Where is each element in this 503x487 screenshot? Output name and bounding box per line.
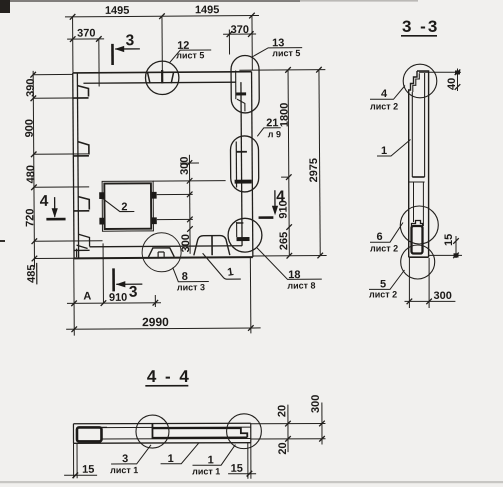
svg-text:лист 8: лист 8 — [287, 280, 315, 290]
label 3 лист 1 — [111, 445, 151, 464]
label 1 (dome) — [203, 253, 241, 279]
svg-text:лист 1: лист 1 — [110, 465, 138, 475]
left end C-channel — [77, 427, 107, 441]
label 8 лист 3 — [173, 267, 209, 282]
svg-text:4 - 4: 4 - 4 — [147, 367, 191, 386]
svg-text:лист 2: лист 2 — [369, 290, 397, 300]
label 12 лист 5 leader — [170, 50, 212, 62]
svg-text:1800: 1800 — [279, 103, 291, 128]
dim 370 left — [67, 36, 104, 87]
svg-text:3 -3: 3 -3 — [402, 17, 439, 36]
core slab — [152, 423, 247, 437]
detail stadium 21 (middle right) — [230, 136, 258, 192]
svg-text:390: 390 — [25, 79, 37, 97]
detail circle 8 — [142, 233, 181, 272]
section 3-3 bottom key — [412, 221, 423, 254]
svg-text:720: 720 — [24, 209, 36, 227]
left edge keyway notch 3 — [74, 197, 90, 211]
bottom recess left (detail 8) — [148, 248, 174, 257]
dim 370 right — [223, 29, 256, 54]
svg-text:4: 4 — [40, 193, 49, 210]
svg-text:лист 2: лист 2 — [370, 244, 398, 254]
outer left face with top step — [409, 71, 417, 257]
svg-text:15: 15 — [82, 464, 94, 476]
label 1 лист 1 (right) — [192, 445, 235, 466]
dim 15 left — [64, 443, 97, 478]
svg-text:1: 1 — [168, 453, 174, 465]
label 2 leader — [103, 199, 134, 212]
svg-text:20: 20 — [276, 405, 288, 417]
svg-text:910: 910 — [109, 292, 127, 304]
plate 2 anchor lugs — [99, 192, 157, 225]
panel bottom edge outer — [74, 257, 253, 258]
svg-text:3: 3 — [129, 284, 138, 301]
stadium 21 joint profile — [234, 141, 251, 187]
outer right face — [417, 71, 429, 257]
panel right edge outer — [252, 72, 253, 257]
panel left edge outer — [73, 73, 74, 258]
label 4 лист 2 — [370, 86, 405, 100]
svg-text:21: 21 — [266, 117, 278, 129]
detail circle middle (6) — [400, 206, 438, 244]
485 underline — [36, 263, 38, 284]
label 5 лист 2 — [369, 270, 405, 289]
inner cavity lines — [411, 92, 413, 177]
dim 300 (bottom) — [405, 258, 456, 308]
svg-text:370: 370 — [231, 24, 249, 36]
svg-text:лист 2: лист 2 — [370, 102, 398, 112]
svg-text:лист 5: лист 5 — [272, 48, 300, 58]
svg-text:2975: 2975 — [308, 158, 320, 183]
svg-text:1495: 1495 — [105, 5, 130, 17]
panel top edge inner — [83, 82, 235, 83]
svg-text:300: 300 — [310, 395, 322, 413]
svg-text:900: 900 — [24, 119, 36, 137]
dim 40 (top right) — [419, 69, 461, 92]
svg-text:300: 300 — [434, 290, 452, 302]
svg-text:6: 6 — [377, 231, 383, 243]
detail circle bottom (5) — [401, 245, 435, 279]
label 1 (middle) — [161, 443, 199, 464]
panel left edge inner — [77, 73, 78, 258]
left edge keyway notch 2 — [73, 142, 89, 156]
left edge keyway notch 1 — [73, 86, 89, 99]
detail stadium 13 (top right corner) — [231, 55, 259, 113]
section marker 3 (bottom) — [114, 268, 143, 291]
panel top edge outer — [73, 72, 252, 73]
detail circle left (3) — [136, 415, 169, 448]
left dim chain 390/900/480/720/485 — [30, 70, 102, 266]
svg-text:910: 910 — [278, 200, 290, 218]
svg-text:300: 300 — [180, 234, 192, 252]
svg-text:3: 3 — [126, 32, 135, 49]
svg-text:370: 370 — [77, 27, 95, 39]
detail circle top (4) — [403, 64, 437, 98]
svg-text:2990: 2990 — [142, 315, 169, 329]
svg-text:1495: 1495 — [195, 4, 220, 16]
panel bottom edge inner — [90, 246, 242, 247]
svg-text:3: 3 — [122, 453, 128, 465]
svg-text:1: 1 — [381, 145, 387, 157]
svg-text:1: 1 — [208, 454, 214, 466]
dim 15 (bottom right) — [429, 236, 462, 258]
top dim line 1495+1495 — [65, 13, 259, 73]
stadium 13 joint profile — [236, 70, 247, 111]
svg-text:485: 485 — [26, 265, 38, 283]
inner 300 dim chain (right of plate 2) — [153, 155, 226, 255]
inner step echo — [413, 73, 420, 92]
label 18 лист 8 leader — [257, 247, 322, 279]
section marker 3 (top) — [112, 44, 140, 65]
svg-text:265: 265 — [278, 232, 290, 250]
right dim chain 1800/910/265 + 2975 — [239, 67, 326, 259]
bottom dim A / 910 — [67, 243, 162, 336]
svg-text:18: 18 — [288, 269, 300, 281]
bottom recess right (dome) — [194, 236, 230, 256]
embedded plate 2 (square) — [102, 181, 153, 231]
section marker 4 (left) — [46, 197, 65, 219]
bottom — [409, 256, 429, 258]
label 1 (3-3) — [377, 140, 411, 157]
label 6 лист 2 — [370, 223, 403, 243]
detail circle right (1) — [227, 414, 262, 449]
section marker 4 (right) — [258, 190, 278, 217]
label 13 лист 5 leader — [252, 48, 302, 57]
svg-text:15: 15 — [443, 234, 455, 246]
svg-text:2: 2 — [121, 201, 127, 213]
svg-text:15: 15 — [231, 463, 243, 475]
right dims 20/20/300 — [251, 402, 326, 452]
label 21 л 9 — [257, 128, 281, 137]
left edge keyway notch 4 — [74, 234, 90, 257]
strip outer lines — [73, 423, 250, 443]
svg-text:480: 480 — [25, 165, 37, 183]
svg-text:лист 5: лист 5 — [176, 50, 204, 60]
panel right edge inner — [241, 82, 242, 246]
svg-text:8: 8 — [182, 271, 188, 283]
circle 18 joint profile — [236, 222, 249, 241]
svg-text:A: A — [83, 291, 91, 303]
detail circle 18 (bottom right corner) — [228, 218, 262, 252]
svg-text:лист 3: лист 3 — [177, 282, 205, 292]
svg-text:20: 20 — [277, 442, 289, 454]
svg-text:л 9: л 9 — [268, 129, 281, 139]
svg-text:4: 4 — [381, 88, 388, 100]
detail circle 12 — [145, 61, 179, 95]
circle 12 keyway marks — [148, 70, 174, 84]
svg-text:300: 300 — [179, 156, 191, 174]
section 3-3 body — [409, 71, 429, 257]
svg-text:40: 40 — [446, 78, 458, 90]
svg-text:лист 1: лист 1 — [192, 466, 220, 476]
dim 15 right — [228, 443, 256, 479]
bottom dim 2990 — [66, 257, 261, 335]
